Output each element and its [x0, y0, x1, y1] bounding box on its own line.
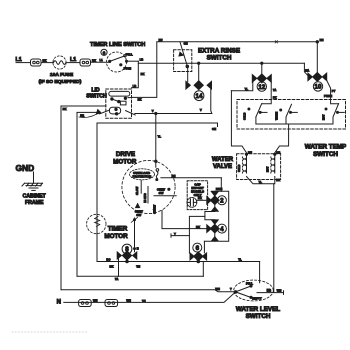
svg-text:12: 12 — [258, 84, 265, 91]
net BU bus (top wire to water temp feed) — [157, 41, 317, 43]
lid switch contact d — [115, 108, 117, 110]
svg-text:WH: WH — [215, 287, 220, 291]
junction tick on BU bus — [275, 41, 277, 43]
svg-text:BK: BK — [43, 59, 47, 63]
svg-text:BK: BK — [198, 196, 202, 200]
loop triangle top (down) — [211, 192, 218, 196]
timer line switch SW1 (dashed circle with contacts) — [107, 52, 139, 72]
svg-text:L1: L1 — [100, 58, 104, 62]
connector P4 — [105, 300, 118, 307]
contact 6 diamond — [194, 252, 203, 261]
circle 10 — [313, 82, 322, 91]
temp contact dot 3 — [325, 108, 327, 110]
contact 12 right triangle — [267, 75, 271, 83]
cent exit contact marks — [131, 217, 137, 222]
contact set 10: feed from BU bus — [316, 42, 318, 73]
svg-text:TN: TN — [142, 299, 146, 303]
net V bus (lid switch to motor and contact 14) — [135, 113, 212, 115]
svg-text:WATER: WATER — [212, 157, 234, 163]
contact 8 diamond — [122, 251, 131, 260]
connector P2 (line plug) — [80, 59, 91, 66]
lid switch contact e — [115, 113, 117, 115]
wire LB bus end to contact 10 left — [304, 63, 308, 75]
circle 4 — [217, 224, 226, 233]
wire lid switch BK up riser — [132, 42, 157, 97]
loop triangle above notch (up) — [211, 207, 218, 211]
net TM bus y261 — [97, 261, 260, 263]
svg-text:YL: YL — [245, 87, 249, 91]
svg-text:V: V — [200, 108, 202, 112]
svg-text:YL: YL — [238, 257, 242, 261]
label CENT SW lower — [135, 209, 143, 217]
svg-text:SLOW: SLOW — [135, 186, 139, 195]
wire extra rinse out — [187, 67, 189, 82]
extra rinse switch label — [198, 47, 240, 61]
svg-text:GN: GN — [212, 127, 216, 131]
svg-text:TIMER LINE SWITCH: TIMER LINE SWITCH — [90, 42, 145, 48]
svg-text:YL: YL — [259, 180, 263, 184]
lid switch blade a — [112, 99, 119, 102]
timer motor M2 (dashed circle with coil) — [87, 214, 106, 233]
drive motor label — [113, 151, 137, 166]
temp fixed contact 1 — [260, 111, 267, 113]
temp switch blade 3 — [333, 104, 339, 124]
svg-text:LB: LB — [140, 58, 144, 62]
contact 6 right triangle — [202, 253, 206, 260]
svg-text:WH: WH — [93, 299, 98, 303]
lid switch blade left (to cabinet rails) — [100, 110, 110, 114]
water level switch SW5 (dashed circle) — [234, 280, 274, 301]
svg-text:PK: PK — [273, 95, 277, 99]
timer motor label — [104, 225, 128, 240]
svg-text:GN: GN — [184, 42, 188, 46]
svg-text:MOTOR: MOTOR — [104, 233, 128, 240]
svg-text:BK: BK — [92, 58, 96, 62]
wire contact6 right riser to loop bottom — [203, 241, 205, 253]
label CAP EXPORT MODELS ONLY — [191, 182, 204, 197]
wire contact6 diamond to bus junction — [197, 260, 199, 263]
wire temp bus to valve right — [275, 124, 289, 153]
svg-text:2: 2 — [220, 198, 224, 205]
cent sw contact dot — [168, 188, 170, 190]
overload protector (dashed ellipse) — [130, 169, 155, 180]
contact 10 diamond — [313, 72, 322, 81]
svg-text:PULL: PULL — [126, 52, 133, 56]
svg-text:10: 10 — [315, 84, 322, 91]
svg-text:BK: BK — [196, 225, 200, 229]
svg-text:HOT: HOT — [266, 166, 270, 172]
contact 14 diamond — [194, 81, 203, 90]
wire bus drop to water level switch — [259, 262, 261, 283]
label CENT SW upper — [157, 187, 165, 195]
wire timer switch down to lid switch — [132, 61, 139, 87]
svg-text:SWITCH: SWITCH — [207, 54, 232, 61]
temp switch blade 1 — [256, 104, 262, 117]
svg-text:HOT: HOT — [322, 114, 326, 120]
contact 2 left triangle — [207, 197, 211, 205]
motor start exit wire to contact 4 — [162, 211, 207, 229]
junction V bus to motor feed — [155, 112, 157, 114]
tick wire from motor — [171, 234, 189, 237]
valve solenoid coil L2 (hot) — [271, 155, 275, 173]
svg-text:CABINET: CABINET — [23, 194, 47, 200]
svg-text:VALVE: VALVE — [213, 164, 232, 170]
rail B to lid switch blade — [77, 112, 100, 276]
water valve label — [212, 157, 234, 170]
temp contact dot 1 — [248, 108, 250, 110]
svg-text:OR: OR — [276, 150, 280, 154]
wire P1 to fuse — [41, 62, 53, 64]
svg-text:BK: BK — [110, 264, 114, 268]
cent sw wire — [154, 195, 176, 197]
contact 14 left triangle — [186, 81, 190, 89]
svg-text:GND: GND — [16, 163, 35, 173]
lid switch label — [86, 87, 107, 99]
net bus y290 (rail A to water level switch) — [61, 290, 234, 292]
water temp switch label — [305, 144, 347, 158]
svg-text:BK: BK — [138, 98, 142, 102]
svg-text:FULL: FULL — [246, 281, 253, 285]
svg-text:H: H — [137, 247, 139, 251]
svg-text:TIMER: TIMER — [108, 225, 128, 232]
svg-text:EMPTY: EMPTY — [252, 296, 261, 300]
lid switch lower right blade out — [126, 111, 136, 115]
rail B blade arrowhead — [96, 110, 101, 114]
contact set 12: feed from LB bus — [261, 63, 263, 74]
wire P2 to timer line switch — [91, 61, 110, 63]
wire GN stub (rail C top) — [97, 123, 218, 127]
svg-text:L1: L1 — [70, 57, 76, 63]
svg-text:6: 6 — [196, 245, 200, 252]
svg-text:PT/BN: PT/BN — [324, 94, 332, 98]
capacitor box (export models) — [187, 181, 207, 210]
wire fuse to P2 — [66, 62, 80, 64]
wire valve coils to BR riser — [247, 177, 275, 184]
temp pivot bus — [256, 117, 333, 124]
svg-text:10A FUSE: 10A FUSE — [50, 72, 74, 78]
wire BK motor to capacitor branch — [161, 177, 221, 179]
contact 12 diamond — [257, 74, 266, 83]
ground lead — [33, 172, 35, 183]
water level input terminal — [234, 291, 237, 294]
contact 4 left triangle — [207, 225, 211, 233]
svg-text:COLD: COLD — [237, 165, 241, 172]
connector P1 (line plug) — [31, 59, 42, 66]
motor cent exit riser to contact 8 — [134, 218, 136, 252]
net LB bus (timer switch to water temp contacts) — [138, 62, 304, 64]
svg-text:L B: L B — [267, 288, 271, 292]
svg-text:N: N — [57, 300, 61, 306]
svg-text:BK: BK — [141, 72, 145, 76]
svg-text:BR: BR — [80, 113, 84, 117]
contact 4 diamond — [210, 224, 219, 233]
water valve box — [237, 154, 281, 180]
water level blade FULL — [236, 286, 251, 292]
water temp switch SW4 box — [237, 100, 346, 130]
loop triangle below notch (down) — [211, 220, 218, 224]
ground symbol (cabinet frame earth) — [22, 183, 43, 190]
wire branch down to contact loop — [220, 178, 222, 192]
svg-text:SW: SW — [136, 213, 141, 217]
water level switch label — [236, 306, 280, 320]
svg-text:7A: 7A — [273, 88, 276, 92]
timer cam circle 0 — [101, 49, 107, 55]
svg-text:COLD: COLD — [243, 113, 247, 120]
svg-text:PT: PT — [332, 89, 336, 93]
svg-text:BK: BK — [63, 107, 67, 111]
lid switch coil loop — [109, 91, 130, 96]
label BN and terminal dot — [316, 41, 318, 43]
svg-text:START: START — [152, 204, 156, 213]
contact loop left edge upper — [205, 191, 215, 241]
contact 8 left triangle — [117, 252, 121, 259]
circle 2 — [217, 196, 226, 205]
svg-text:SWITCH: SWITCH — [246, 313, 271, 320]
circle 8 — [122, 244, 132, 254]
motor hi winding — [147, 187, 149, 204]
net N bus — [64, 292, 236, 303]
connector P3 — [79, 300, 92, 307]
svg-text:V: V — [152, 109, 154, 113]
temp fixed contact 2 — [290, 111, 297, 113]
contact 8 right triangle — [133, 252, 137, 259]
wire contact10 right to water temp switch — [327, 80, 331, 99]
svg-text:FRAME: FRAME — [25, 200, 44, 206]
drive motor M1 (dashed circle) — [122, 160, 175, 213]
contact 14 right triangle — [207, 81, 211, 89]
temp fixed contact 3 — [337, 111, 344, 113]
temp switch feed step group3 — [331, 100, 339, 104]
motor slow winding — [140, 181, 142, 194]
svg-text:SWITCH: SWITCH — [86, 94, 107, 100]
svg-text:(IF SO EQUIPPED): (IF SO EQUIPPED) — [39, 79, 82, 85]
wire contact8 left to lower bus — [118, 259, 120, 276]
svg-text:WARM: WARM — [275, 112, 279, 120]
overload element — [156, 169, 159, 181]
junction dot — [198, 62, 200, 64]
extra rinse switch SW3 box — [174, 50, 192, 72]
svg-text:BU: BU — [248, 150, 252, 154]
lid switch contact a — [111, 98, 113, 100]
svg-text:YL: YL — [158, 134, 162, 138]
svg-text:7A: 7A — [115, 277, 118, 281]
rail B blade swoop — [79, 112, 100, 118]
svg-text:LB: LB — [133, 84, 137, 88]
valve terminal OR — [274, 153, 276, 155]
lid switch lower loop — [109, 107, 120, 114]
wire contact14 right to V bus — [211, 89, 212, 114]
wire contact12 right into water temp switch — [270, 82, 272, 99]
svg-text:HI SPD: HI SPD — [143, 193, 147, 202]
svg-text:14: 14 — [196, 93, 203, 100]
valve solenoid coil L1 (cold) — [243, 155, 247, 173]
rail A from lid switch area — [61, 106, 106, 290]
wire L1 input — [16, 62, 31, 64]
dotted artifact line bottom left — [12, 331, 88, 333]
wire contact12 left to YL drop — [231, 82, 252, 90]
svg-text:PROTECTOR: PROTECTOR — [133, 175, 153, 179]
svg-text:DRIVE: DRIVE — [116, 151, 135, 158]
lid switch contact b — [118, 100, 120, 102]
svg-text:BO: BO — [106, 257, 110, 261]
contact 2 diamond — [210, 196, 219, 205]
svg-text:WH: WH — [126, 299, 131, 303]
svg-text:Y: Y — [174, 232, 176, 236]
contact 10 right triangle — [322, 73, 326, 81]
lid switch actuator block — [120, 101, 126, 105]
water level blade EMPTY — [236, 292, 251, 297]
valve terminal BU — [245, 153, 247, 155]
contact set 14: feed from LB bus — [198, 63, 200, 80]
circle 12 — [257, 82, 266, 91]
svg-text:EXTRA RINSE: EXTRA RINSE — [198, 47, 240, 54]
extra rinse switch blade — [180, 42, 188, 67]
circle 6 — [193, 243, 202, 252]
circle 14 — [194, 91, 204, 101]
lid switch SW2 box — [106, 89, 132, 118]
temp switch feed step group1 — [262, 100, 272, 104]
contact loop frame (motor switch plate) — [204, 191, 228, 241]
wire BR riser to water level switch — [273, 184, 275, 293]
cabinet frame label — [23, 194, 47, 206]
svg-text:BN: BN — [320, 38, 324, 42]
svg-text:WATER TEMP: WATER TEMP — [305, 144, 347, 151]
lid switch right terminal BK — [128, 97, 132, 99]
svg-text:SW: SW — [159, 191, 164, 195]
temp contact dot 2 — [280, 109, 282, 111]
cent sw lower triangle — [136, 204, 140, 208]
svg-text:LID: LID — [91, 87, 100, 93]
wire V bus to motor overload — [155, 114, 157, 168]
svg-text:BR: BR — [276, 178, 280, 182]
svg-text:HA: HA — [305, 68, 309, 72]
svg-text:B/WH: B/WH — [216, 188, 223, 191]
rail C vertical (through timer motor) — [96, 123, 98, 262]
capacitor C1 — [187, 198, 197, 208]
temp switch blade 2 — [286, 104, 292, 124]
svg-text:WATER LEVEL: WATER LEVEL — [236, 306, 280, 313]
net lower bus y276 (rail B) — [77, 275, 203, 277]
svg-text:BN: BN — [172, 174, 176, 178]
wire water level out — [257, 291, 284, 295]
label OVERLOAD PROTECTOR — [133, 171, 153, 179]
wire YL drop to valve left — [231, 91, 246, 153]
svg-text:MOTOR: MOTOR — [113, 158, 137, 165]
wire contact8 diamond to bus junction — [126, 260, 128, 262]
contact 12 left triangle — [252, 75, 256, 83]
svg-text:PUSH: PUSH — [124, 67, 132, 71]
wire capacitor to contact 2 — [197, 199, 207, 201]
wire stub bus276 to bus261 — [202, 262, 204, 277]
extra rinse contact low dot — [186, 65, 189, 68]
terminal dot at motor — [155, 160, 157, 162]
lid switch contact c — [124, 97, 126, 99]
contact 10 left triangle — [308, 73, 312, 81]
loop triangle bottom (up) — [211, 237, 218, 241]
contact 6 left triangle — [190, 253, 194, 260]
label H and dot — [134, 248, 136, 250]
svg-text:WH: WH — [277, 289, 282, 293]
wire notch to contact 6 riser — [189, 216, 205, 253]
junction dot — [261, 62, 263, 64]
svg-text:4: 4 — [220, 226, 224, 233]
fuse F1 10A (dashed circle with squiggle) — [53, 56, 66, 69]
svg-text:0: 0 — [103, 50, 106, 55]
extra rinse contact up triangle — [179, 52, 183, 56]
svg-text:SWITCH: SWITCH — [313, 151, 338, 158]
